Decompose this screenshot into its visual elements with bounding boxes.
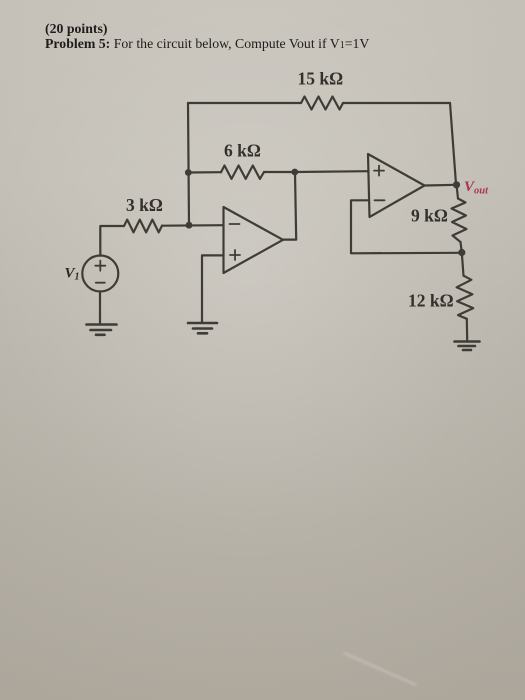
wire 12k to ground	[466, 319, 469, 341]
svg-text:3 kΩ: 3 kΩ	[126, 195, 163, 215]
wire feedback op2 minus	[351, 200, 462, 253]
svg-text:9 kΩ: 9 kΩ	[411, 206, 448, 226]
op-amp U2	[368, 154, 425, 217]
wire mid node to 12k	[462, 253, 464, 276]
wire top feedback right segment	[343, 102, 450, 104]
svg-text:Vout: Vout	[464, 179, 489, 197]
wire node B to op2 plus input	[295, 170, 368, 173]
node B junction op1 output / op2 plus	[291, 169, 298, 176]
heading line 2	[45, 36, 369, 52]
node Vout	[453, 181, 460, 188]
svg-text:V1: V1	[65, 266, 80, 283]
op-amp U1	[224, 207, 284, 273]
wire V1 top to 3k resistor	[100, 226, 124, 256]
wire left vertical	[188, 103, 189, 225]
svg-text:6 kΩ: 6 kΩ	[224, 141, 261, 161]
wire op1 plus input down to ground	[202, 255, 224, 322]
wire 9k to mid node	[461, 242, 462, 253]
ground bottom right	[455, 342, 480, 351]
svg-text:15 kΩ: 15 kΩ	[298, 69, 344, 89]
wire op1 output up to node B	[283, 172, 296, 240]
wire op2 output to Vout node	[425, 184, 457, 187]
resistor R=3k	[124, 220, 162, 233]
node D junction 9k/12k	[458, 249, 465, 256]
node C junction minus input	[186, 222, 193, 229]
wire 6k row right	[264, 171, 295, 173]
resistor R=15k	[301, 97, 343, 110]
resistor R=9k (vertical)	[452, 199, 467, 243]
wire V1 bottom to ground	[99, 292, 101, 325]
resistor R=12k (vertical)	[457, 276, 474, 319]
wire top feedback left segment	[188, 102, 301, 104]
wire 3k to op1 minus input	[162, 224, 224, 227]
resistor R=6k	[221, 166, 264, 179]
node A junction feedback/6k	[185, 169, 192, 176]
wire right vertical down to Vout node	[450, 103, 456, 184]
wire 6k row left	[188, 171, 221, 174]
heading line 1	[45, 21, 107, 37]
svg-text:12 kΩ: 12 kΩ	[408, 291, 454, 311]
ground under op1 plus	[188, 323, 217, 333]
source V1	[82, 256, 118, 292]
wire Vout node to 9k	[457, 185, 459, 199]
ground under V1	[87, 325, 117, 335]
